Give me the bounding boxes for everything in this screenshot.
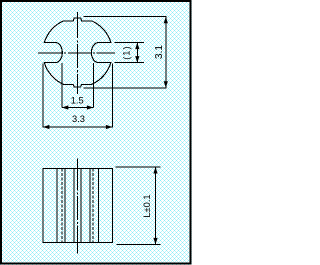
side view flange inner edge right: [97, 169, 99, 243]
side view center line: [77, 159, 79, 254]
dimension 3.1 extension line top: [83, 16, 166, 18]
dimension 3.3 arrow left: [43, 125, 50, 129]
dimension 3.1 dimension line: [165, 17, 167, 88]
horizontal center line (top view): [38, 52, 115, 54]
dimension 1.5 arrow right: [87, 105, 94, 109]
dimension 3.1 arrow up: [164, 17, 168, 24]
dimension (1) arrow down: [135, 56, 139, 63]
vertical center line (top view): [76, 12, 78, 95]
dimension 3.1 extension line bottom: [83, 87, 166, 89]
dimension L extension line bottom: [117, 243, 161, 245]
side view hidden line left: [61, 169, 63, 243]
dimension 1.5 arrow left: [62, 105, 69, 109]
side view flange inner edge left: [56, 169, 58, 243]
side view core edge left: [73, 169, 75, 243]
dimension (1) dimension line: [136, 43, 138, 63]
dimension 3.1 arrow down: [164, 81, 168, 88]
top view: drum core outline: [44, 18, 111, 87]
svg-text:L±0.1: L±0.1: [142, 194, 152, 217]
dimension L arrow down: [153, 238, 157, 245]
dimension 1.5 extension line left: [61, 63, 63, 108]
svg-text:1.5: 1.5: [71, 95, 84, 105]
dimension L dimension line: [155, 167, 157, 244]
dimension 3.3 extension line right: [111, 64, 113, 128]
dimension (1) extension line top: [114, 42, 144, 44]
dimension L arrow up: [153, 167, 157, 174]
side view body rectangle: [43, 169, 113, 243]
dimension 1.5 extension line right: [92, 63, 94, 108]
side view core edge right: [80, 169, 82, 243]
svg-text:3.1: 3.1: [154, 45, 165, 59]
side view winding edge right: [89, 169, 91, 243]
dimension 1.5 dimension line: [62, 107, 94, 109]
dimension 3.3 arrow right: [106, 125, 113, 129]
side view winding edge left: [64, 169, 66, 243]
dimension 3.3 dimension line: [43, 126, 113, 128]
dimension 3.3 extension line left: [42, 64, 44, 128]
svg-text:3.3: 3.3: [72, 114, 85, 124]
svg-text:(1): (1): [122, 45, 132, 59]
side view hidden line right: [92, 169, 94, 243]
dimension (1) arrow up: [135, 43, 139, 50]
dimension (1) extension line bottom: [114, 62, 144, 64]
dimension L extension line top: [115, 166, 160, 168]
